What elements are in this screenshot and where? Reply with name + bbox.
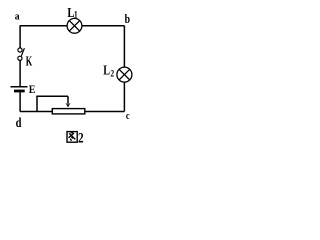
svg-text:L: L xyxy=(103,62,110,78)
svg-text:d: d xyxy=(16,114,22,130)
svg-text:b: b xyxy=(125,13,130,26)
svg-text:2: 2 xyxy=(110,68,114,79)
svg-text:c: c xyxy=(126,111,130,122)
svg-text:a: a xyxy=(15,11,21,23)
svg-text:K: K xyxy=(26,54,33,69)
svg-text:E: E xyxy=(29,85,36,97)
svg-text:2: 2 xyxy=(78,129,84,146)
svg-text:1: 1 xyxy=(74,9,78,20)
